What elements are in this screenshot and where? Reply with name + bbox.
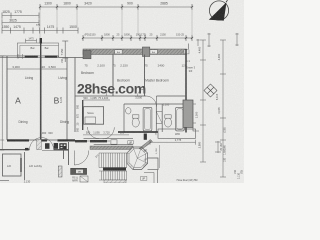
stair handrail black [103, 168, 126, 171]
bottom right dim stubs [215, 141, 221, 153]
left outer wall [6, 56, 8, 140]
stairs top hatched wall [90, 146, 133, 150]
dim 7150 vertical [62, 41, 68, 62]
room dims row inside living [12, 65, 56, 69]
stair treads flight2 [99, 171, 127, 180]
wall from octagon to right [148, 158, 159, 170]
right outer wall [185, 49, 187, 133]
hatched pillar [58, 166, 62, 177]
party wall cap [40, 38, 42, 44]
white insets in wall [115, 50, 122, 54]
stairs bottom hatch [104, 180, 126, 183]
shaft walls cluster [45, 143, 50, 149]
dim stub right top [196, 33, 238, 47]
bottom wall A/B with door arcs [7, 139, 75, 141]
octagon stair core [127, 147, 148, 170]
store west wall [82, 100, 84, 130]
balcony AB [17, 43, 58, 57]
shaft between baths [156, 112, 162, 124]
lobby top wall [0, 149, 30, 151]
dimension line row2 left [2, 13, 39, 19]
bathroom bottom wall thick [118, 131, 158, 133]
small step below tank [193, 127, 199, 131]
front wall unit A/B with window segments [0, 54, 59, 59]
corridor walls [84, 138, 134, 140]
right dim line 2 [220, 40, 226, 177]
north arrow [209, 0, 229, 20]
lift [3, 154, 22, 176]
dim labels top [44, 2, 168, 6]
top wall bedroom wing hatched [83, 49, 187, 55]
extension lines from top dims [2, 7, 192, 38]
dim 2775 [150, 141, 196, 143]
pillar mid [142, 47, 149, 57]
unit B right wall [66, 58, 68, 141]
diamond flue [204, 84, 217, 97]
bedroom divider walls [112, 55, 114, 97]
far left dim vertical [0, 56, 4, 150]
bedroom door arcs [106, 89, 113, 96]
pillar dark left [83, 51, 91, 59]
step wall top between B and bedroom wing [58, 56, 60, 58]
store room [84, 107, 104, 125]
utility platform box [158, 129, 196, 138]
master door arc [146, 96, 156, 106]
bathtub 2 [176, 107, 185, 131]
dim row above store [83, 96, 108, 100]
bottom wall under store thick black [75, 140, 87, 142]
bathrooms block [124, 104, 186, 132]
wall end blob [144, 134, 147, 140]
landing corners [148, 170, 158, 183]
corridor wall right of lobby [63, 149, 65, 159]
balcony divider [40, 43, 42, 58]
gray tank right [183, 100, 193, 127]
meter room [71, 168, 87, 174]
toilet 2 [164, 118, 171, 127]
corridor dim row [86, 131, 125, 135]
bedroom bottom wall [75, 95, 146, 97]
stair treads flight1 [99, 153, 127, 168]
diagonal wall NE of octagon [139, 140, 153, 150]
dimension line row4 left [2, 28, 78, 34]
bathtub 1 [143, 107, 152, 131]
door arcs kitchen to corridor [88, 127, 100, 139]
dimension line mid over bedrooms [83, 35, 192, 41]
toilet 1 [132, 118, 139, 127]
paper noise [0, 0, 244, 183]
bedroom dims row [84, 64, 187, 68]
party wall A/B [40, 58, 42, 141]
kitchen wall [74, 58, 76, 133]
dim row above bottom wall [40, 131, 53, 135]
corridor door arc [74, 151, 89, 166]
dim stub right of octagon [159, 145, 161, 168]
right dim line 1 [200, 40, 206, 162]
sink 1 [126, 108, 131, 114]
dimension line row3 left [2, 20, 39, 26]
lobby double door arcs [30, 138, 42, 150]
micro dim above balcony [26, 39, 37, 43]
dimension line top full [40, 4, 192, 10]
